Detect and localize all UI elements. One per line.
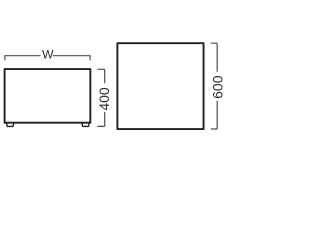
left foot	[6, 123, 13, 127]
dimension 600 line with end ticks	[211, 43, 217, 129]
table top-view outline	[117, 43, 203, 129]
svg-text:400: 400	[96, 87, 112, 111]
svg-text:W: W	[42, 48, 54, 62]
ottoman front-view outline	[5, 69, 91, 123]
dimension W lines with end hooks	[5, 56, 90, 61]
dimension 400 line with end ticks	[97, 69, 104, 126]
right foot	[82, 123, 89, 127]
svg-text:600: 600	[209, 75, 225, 99]
